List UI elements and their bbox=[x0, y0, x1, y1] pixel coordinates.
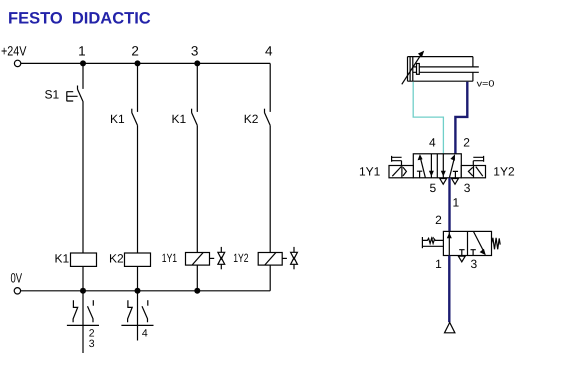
node rung2 top bbox=[135, 60, 141, 66]
wire rung3 upper bbox=[196, 63, 198, 112]
svg-text:K2: K2 bbox=[244, 112, 259, 126]
svg-text:2: 2 bbox=[131, 44, 139, 59]
node rung3 bottom bbox=[194, 288, 200, 294]
svg-text:3: 3 bbox=[191, 44, 199, 59]
cylinder 1A bbox=[402, 51, 479, 85]
svg-text:1Y1: 1Y1 bbox=[162, 251, 178, 265]
svg-text:FESTO DIDACTIC: FESTO DIDACTIC bbox=[8, 10, 151, 28]
wire rung1 lower bbox=[82, 102, 84, 253]
valve 5/2 right box flow 1-2 bbox=[449, 154, 455, 178]
svg-text:S1: S1 bbox=[45, 88, 60, 102]
wire rung4 upper bbox=[269, 63, 271, 112]
svg-text:0V: 0V bbox=[11, 271, 23, 286]
svg-text:2: 2 bbox=[435, 213, 442, 227]
svg-text:4: 4 bbox=[142, 328, 148, 340]
svg-text:1: 1 bbox=[78, 44, 86, 59]
valve 5/2 left box blocked port 5 bbox=[417, 171, 422, 178]
wire +24V rail bbox=[21, 62, 270, 64]
solenoid 1Y1 on valve bbox=[389, 156, 413, 178]
wire rung2 lower bbox=[137, 125, 139, 253]
pipe cylinder right to valve port 2 (pressurised, navy) bbox=[455, 82, 467, 154]
valve link symbol 1Y2 bbox=[282, 247, 297, 269]
valve 3/2 right box flow 2-3 bbox=[473, 231, 485, 255]
pushbutton S1 bbox=[67, 86, 83, 103]
solenoid coil 1Y2 bbox=[258, 253, 282, 266]
wire rung2 upper bbox=[137, 63, 139, 112]
svg-text:3: 3 bbox=[89, 338, 95, 350]
contact K2 (rung4) bbox=[265, 109, 271, 126]
valve link symbol 1Y1 bbox=[210, 247, 225, 269]
spring return bbox=[492, 238, 501, 250]
svg-text:1Y2: 1Y2 bbox=[233, 251, 249, 265]
wire rung1 upper bbox=[82, 63, 84, 89]
pipe valve port 1 to shutoff valve (navy) bbox=[448, 178, 450, 232]
solenoid coil 1Y1 bbox=[186, 253, 210, 266]
svg-text:3: 3 bbox=[471, 257, 478, 271]
svg-text:v=0: v=0 bbox=[477, 78, 495, 88]
exhaust port 3 of shutoff bbox=[458, 256, 465, 262]
valve 3/2 right box blocked port 1 bbox=[471, 250, 476, 256]
manual actuator with detent bbox=[422, 237, 443, 248]
svg-text:1Y2: 1Y2 bbox=[493, 164, 515, 178]
svg-text:+24V: +24V bbox=[1, 44, 27, 59]
solenoid 1Y2 on valve bbox=[461, 156, 485, 178]
svg-text:K2: K2 bbox=[109, 252, 124, 266]
svg-text:1: 1 bbox=[435, 257, 442, 271]
contact K1 (rung3) bbox=[192, 109, 198, 126]
node rung3 top bbox=[194, 60, 200, 66]
wire below K1 coil bbox=[82, 266, 84, 290]
valve 5/2 right box flow 4-5 bbox=[441, 154, 446, 178]
node rung1 bottom bbox=[80, 288, 86, 294]
wire below K2 coil bbox=[137, 266, 139, 290]
contact reference table K1 bbox=[67, 291, 99, 353]
valve 3/2 left box flow 1-2 bbox=[447, 231, 452, 255]
valve 5/2 body bbox=[413, 154, 461, 178]
pipe cylinder left to valve port 4 (exhausted, cyan) bbox=[413, 82, 443, 154]
exhaust port 3 silencer bbox=[452, 179, 459, 185]
svg-text:2: 2 bbox=[463, 136, 470, 150]
valve 5/2 left box flow 1-4 bbox=[418, 154, 426, 178]
coil K1 bbox=[71, 253, 97, 266]
svg-text:4: 4 bbox=[429, 136, 436, 150]
node rung1 top bbox=[80, 60, 86, 66]
contact K1 (rung2) bbox=[132, 109, 138, 126]
contact reference table K2 bbox=[121, 291, 153, 341]
valve 5/2 left box flow 2-3 bbox=[429, 154, 434, 178]
exhaust port 5 silencer bbox=[440, 179, 447, 185]
svg-text:K1: K1 bbox=[110, 112, 125, 126]
wire below 1Y2 coil bbox=[269, 265, 271, 291]
svg-text:3: 3 bbox=[464, 181, 471, 195]
terminal +24V bbox=[14, 60, 20, 66]
svg-text:1: 1 bbox=[453, 195, 460, 209]
wire rung4 lower bbox=[269, 125, 271, 252]
wire rung3 lower bbox=[196, 125, 198, 252]
terminal 0V bbox=[14, 288, 20, 294]
valve 3/2 left box blocked port 3 bbox=[459, 250, 464, 256]
svg-text:5: 5 bbox=[429, 181, 436, 195]
svg-text:K1: K1 bbox=[172, 112, 187, 126]
svg-text:4: 4 bbox=[265, 44, 273, 59]
valve 5/2 right box blocked port 3 bbox=[453, 171, 458, 177]
valve 3/2 shutoff body bbox=[443, 231, 491, 255]
coil K2 bbox=[125, 253, 151, 266]
wire below 1Y1 coil bbox=[196, 265, 198, 291]
node rung2 bottom bbox=[135, 288, 141, 294]
wire 0V rail bbox=[21, 290, 271, 292]
svg-text:K1: K1 bbox=[55, 252, 70, 266]
compressed air supply bbox=[445, 323, 455, 333]
svg-text:1Y1: 1Y1 bbox=[359, 164, 381, 178]
pipe shutoff to supply (navy) bbox=[448, 256, 450, 323]
